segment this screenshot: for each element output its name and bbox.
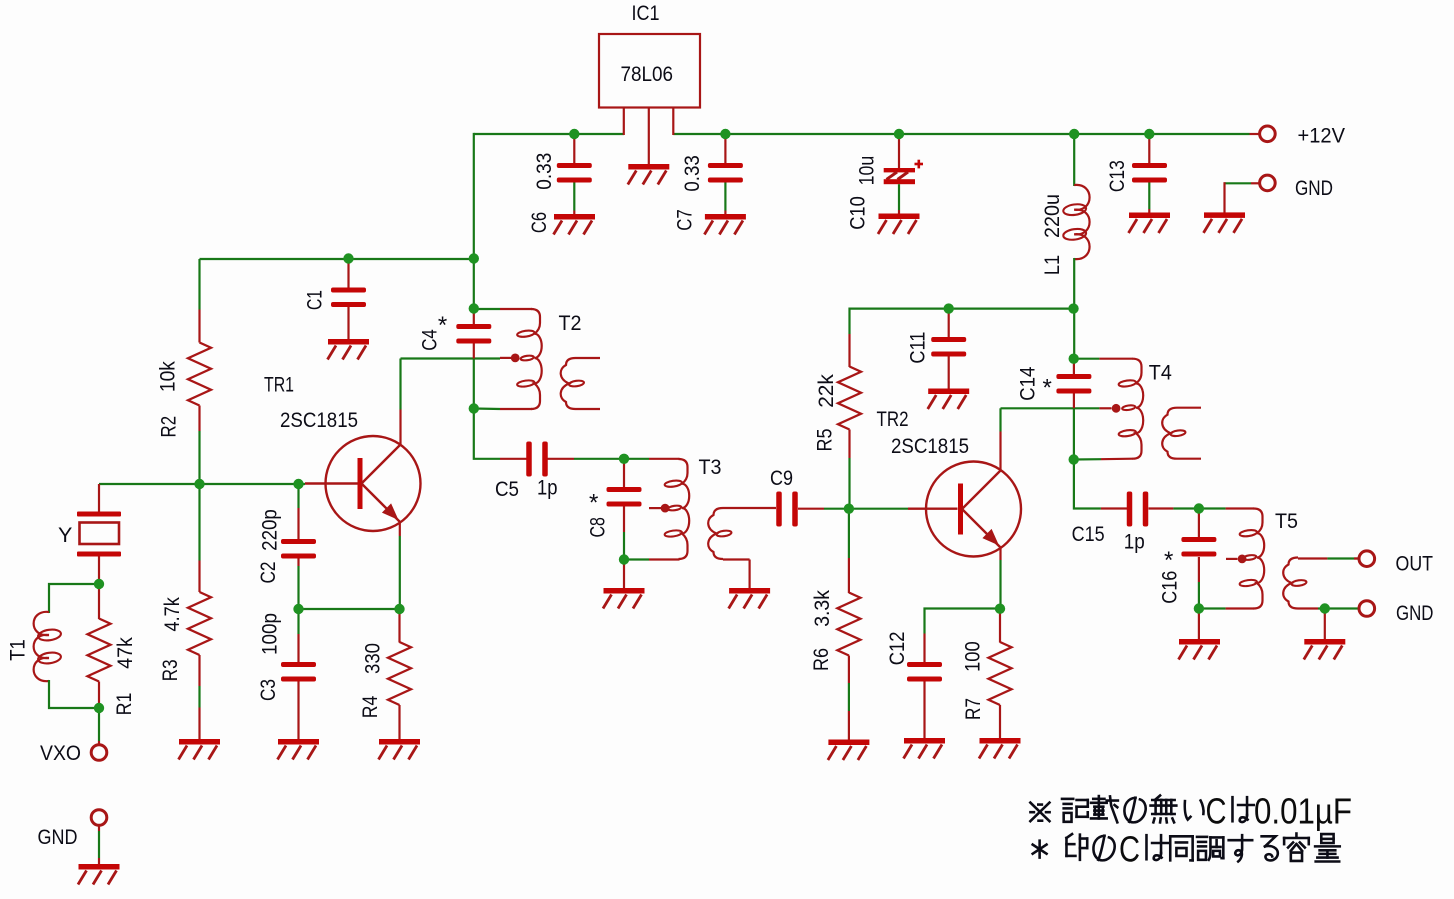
wire OUT stub: [1354, 557, 1360, 559]
capacitor C5 1p: [500, 442, 624, 477]
pin +12V pad: [1260, 126, 1276, 142]
capacitor C8: [607, 459, 642, 560]
svg-text:T1: T1: [6, 639, 30, 661]
label C8 star: [589, 490, 598, 517]
label OUT: [1396, 552, 1434, 576]
svg-text:VXO: VXO: [40, 741, 81, 765]
wire TR2 base: [849, 508, 958, 510]
op-amp IC1 78L06 regulator box: [599, 34, 700, 108]
transformer T5 primary: [1199, 509, 1264, 609]
wire T1 top: [49, 584, 99, 613]
node junction C2-C3: [293, 604, 303, 614]
label GND out: [1396, 601, 1434, 625]
node junction C4 top: [469, 303, 479, 313]
node junction C11-rail: [944, 303, 954, 313]
ground R3: [179, 739, 221, 760]
node junction R2-R3: [194, 479, 204, 489]
label R1: [112, 693, 136, 716]
wire +12V top rail left segment: [474, 133, 624, 135]
note text line1: [1030, 791, 1352, 832]
wire R5-C11 rail: [850, 309, 1074, 334]
pin IC1 input: [623, 108, 625, 136]
label +12V: [1298, 124, 1346, 148]
label R1 value 47k: [113, 637, 137, 669]
label R6: [809, 648, 833, 671]
ground C3: [278, 739, 320, 760]
node junction C5-T3-C8: [619, 454, 629, 464]
wire TR2 emitter: [999, 547, 1001, 610]
label C10: [845, 196, 869, 230]
wire C12 row: [925, 609, 1001, 634]
wire C14 to T4 bottom node: [1073, 408, 1075, 459]
svg-text:*: *: [1164, 547, 1173, 574]
svg-text:OUT: OUT: [1396, 552, 1434, 576]
label C10 value 10u: [855, 156, 879, 186]
svg-text:C3: C3: [256, 679, 280, 701]
transistor TR2 2SC1815: [926, 462, 1021, 557]
svg-text:C: C: [1206, 791, 1227, 832]
ground T5 secondary: [1304, 639, 1346, 660]
label GND right: [1295, 176, 1333, 200]
wire C4 to T2 bottom node: [473, 359, 475, 410]
wire TR1 emitter: [399, 521, 401, 609]
label C9: [770, 466, 793, 490]
svg-text:C1: C1: [302, 290, 326, 310]
resistor R3 4.7k: [188, 484, 211, 740]
transformer T2 secondary: [561, 358, 600, 409]
transformer T2 primary: [474, 309, 542, 409]
svg-text:L1: L1: [1040, 255, 1064, 275]
svg-text:R3: R3: [158, 659, 182, 681]
label R3 value 4.7k: [160, 597, 184, 632]
svg-text:C15: C15: [1072, 522, 1105, 546]
label T5: [1275, 509, 1298, 533]
svg-text:10k: 10k: [155, 361, 179, 392]
wire C16 ground lead: [1198, 609, 1200, 641]
svg-text:Y: Y: [58, 523, 72, 547]
label VXO: [40, 741, 81, 765]
label C13: [1105, 160, 1129, 192]
label TR2: [877, 407, 909, 431]
resistor R7 100: [989, 609, 1012, 739]
svg-text:C5: C5: [495, 477, 519, 501]
node junction T5-GND: [1320, 603, 1330, 613]
pin GND out pad: [1359, 601, 1375, 617]
svg-text:1p: 1p: [537, 476, 558, 500]
ground C1: [328, 339, 370, 360]
node junction rail-C6: [569, 129, 579, 139]
node junction vertical-rail: [469, 253, 479, 263]
label C5: [495, 477, 519, 501]
svg-text:0.01µF: 0.01µF: [1254, 791, 1352, 832]
label C2 value 220p: [258, 509, 282, 551]
node junction T2 bottom: [469, 403, 479, 413]
label R4: [358, 696, 382, 719]
label C12: [885, 632, 909, 666]
resistor R2 10k: [188, 259, 211, 484]
svg-text:R2: R2: [156, 416, 180, 438]
label C4 star: [438, 312, 447, 339]
capacitor C9: [776, 492, 849, 527]
ground C16: [1179, 639, 1221, 660]
node junction C14-T4 top: [1069, 354, 1079, 364]
node junction rail-L1: [1069, 129, 1079, 139]
label C15 value 1p: [1124, 530, 1145, 554]
ground GND left: [78, 864, 120, 885]
wire VXO: [98, 708, 100, 746]
wire TR2 collector: [1001, 408, 1100, 471]
label T3: [699, 455, 722, 479]
label R6 value 3.3k: [810, 590, 834, 627]
transformer T3 primary: [624, 459, 689, 560]
svg-text:C: C: [1119, 829, 1140, 870]
label C16 star: [1164, 547, 1173, 574]
wire T1 bottom: [49, 680, 99, 708]
transformer T4 secondary: [1162, 408, 1201, 459]
svg-text:R6: R6: [809, 648, 833, 671]
label C1: [302, 290, 326, 310]
label R7 value 100: [961, 641, 985, 672]
note text line2: [1033, 829, 1340, 870]
label C14: [1016, 367, 1040, 401]
label C8: [586, 517, 610, 537]
svg-text:C6: C6: [527, 212, 551, 233]
pin IC1 gnd: [648, 108, 650, 166]
svg-text:GND: GND: [38, 825, 78, 849]
node junction rail-C7: [720, 129, 730, 139]
ground T3 secondary: [729, 588, 771, 609]
node junction C1-rail: [343, 253, 353, 263]
inductor L1 220u: [1063, 185, 1090, 259]
wire T4 to C15: [1074, 460, 1101, 509]
wire bias rail y259: [200, 258, 474, 260]
wire base row TR1: [99, 483, 305, 485]
wire left vertical from rail to C4 node: [473, 133, 475, 309]
label C16: [1157, 571, 1181, 604]
label R2 value 10k: [155, 361, 179, 392]
svg-text:330: 330: [360, 643, 384, 674]
svg-text:C10: C10: [845, 196, 869, 230]
node junction T4 bottom: [1069, 454, 1079, 464]
capacitor C2 220p: [281, 484, 316, 609]
label R4 value 330: [360, 643, 384, 674]
label TR2 type 2SC1815: [891, 434, 969, 458]
label C7: [672, 209, 696, 231]
svg-text:4.7k: 4.7k: [160, 597, 184, 632]
wire L1 bottom: [1073, 258, 1075, 309]
ground C10: [878, 214, 920, 235]
svg-text:T2: T2: [559, 311, 582, 335]
svg-text:100p: 100p: [258, 613, 282, 655]
ground R7: [979, 738, 1021, 759]
label IC1: [632, 1, 660, 25]
label T2: [559, 311, 582, 335]
capacitor C10 polarized: [884, 134, 923, 214]
ground R4: [379, 739, 421, 760]
node junction Y-R1-T1: [94, 579, 104, 589]
label R2: [156, 416, 180, 438]
svg-text:C16: C16: [1157, 571, 1181, 604]
wire GND pad right: [1225, 182, 1261, 213]
svg-text:*: *: [438, 312, 447, 339]
label C3: [256, 679, 280, 701]
ground C12: [904, 738, 946, 759]
label C15: [1072, 522, 1105, 546]
node junction C9-R5-R6-base: [844, 504, 854, 514]
capacitor C6: [557, 134, 592, 215]
ground C11: [928, 389, 970, 410]
label C3 value 100p: [258, 613, 282, 655]
node junction base-C2: [293, 479, 303, 489]
svg-text:R1: R1: [112, 693, 136, 716]
transformer T5 secondary: [1283, 558, 1359, 609]
label C2: [256, 562, 280, 584]
label T1: [6, 639, 30, 661]
capacitor C12: [907, 634, 942, 740]
svg-text:+12V: +12V: [1298, 124, 1346, 148]
pin GND pad right: [1260, 175, 1276, 191]
resistor R5 22k: [838, 334, 861, 509]
label TR1 type 2SC1815: [280, 408, 358, 432]
svg-text:T3: T3: [699, 455, 722, 479]
label L1 value 220u: [1040, 194, 1064, 238]
label C6: [527, 212, 551, 233]
svg-text:C14: C14: [1016, 367, 1040, 401]
capacitor C16: [1181, 509, 1216, 609]
capacitor C3 100p: [281, 609, 316, 740]
wire T2 to C5: [474, 409, 500, 459]
label R5 value 22k: [814, 374, 838, 408]
svg-text:3.3k: 3.3k: [810, 590, 834, 627]
pin GND pad left: [91, 810, 107, 826]
label TR1: [264, 373, 294, 397]
inductor T1: [34, 612, 62, 681]
capacitor C13: [1132, 134, 1167, 213]
label C5 value 1p: [537, 476, 558, 500]
node junction C15-C16-T5 top: [1194, 503, 1204, 513]
svg-text:22k: 22k: [814, 374, 838, 408]
transformer T3 secondary: [708, 508, 776, 589]
wire GND left: [98, 825, 100, 865]
svg-text:R7: R7: [961, 698, 985, 720]
ground C7: [704, 214, 746, 235]
svg-text:0.33: 0.33: [532, 153, 556, 190]
svg-text:220p: 220p: [258, 509, 282, 551]
label R7: [961, 698, 985, 720]
label R5: [812, 428, 836, 451]
node junction rail-C10: [894, 129, 904, 139]
crystal Y: [77, 484, 121, 585]
node junction L1-rail: [1068, 303, 1078, 313]
capacitor C15 1p: [1101, 492, 1199, 527]
svg-text:C9: C9: [770, 466, 793, 490]
capacitor C7: [708, 134, 743, 215]
wire L1 top: [1073, 134, 1075, 186]
wire C8 ground lead: [623, 560, 625, 590]
label T4: [1149, 361, 1172, 385]
svg-text:T5: T5: [1275, 509, 1298, 533]
svg-text:0.33: 0.33: [680, 155, 704, 191]
pin OUT pad: [1359, 551, 1375, 567]
svg-text:C11: C11: [905, 332, 929, 364]
svg-text:1p: 1p: [1124, 530, 1145, 554]
wire +12V top rail right segment: [673, 133, 1249, 135]
label L1: [1040, 255, 1064, 275]
svg-text:C2: C2: [256, 562, 280, 584]
svg-text:R4: R4: [358, 696, 382, 719]
wire +12V stub: [1250, 133, 1261, 135]
capacitor C4: [456, 309, 491, 359]
node junction rail-C13: [1144, 129, 1154, 139]
svg-text:C12: C12: [885, 632, 909, 666]
svg-text:C13: C13: [1105, 160, 1129, 192]
label GND left: [38, 825, 78, 849]
capacitor C11: [931, 309, 966, 390]
label R3: [158, 659, 182, 681]
wire L1 to C14: [1073, 309, 1075, 359]
svg-text:C8: C8: [586, 517, 610, 537]
label Y: [58, 523, 72, 547]
svg-text:78L06: 78L06: [621, 62, 674, 86]
wire GND out lead: [1324, 609, 1326, 641]
svg-text:GND: GND: [1396, 601, 1434, 625]
svg-text:2SC1815: 2SC1815: [891, 434, 969, 458]
ground IC1: [628, 164, 670, 185]
resistor R6 3.3k: [837, 509, 860, 741]
transformer T4 primary: [1074, 359, 1144, 460]
svg-text:C7: C7: [672, 209, 696, 231]
label C14 star: [1043, 375, 1052, 402]
svg-text:2SC1815: 2SC1815: [280, 408, 358, 432]
capacitor C14: [1056, 359, 1091, 409]
label C4: [418, 329, 442, 351]
label C11: [905, 332, 929, 364]
svg-text:220u: 220u: [1040, 194, 1064, 238]
wire emitter row TR1: [299, 608, 400, 610]
svg-text:GND: GND: [1295, 176, 1333, 200]
svg-text:R5: R5: [812, 428, 836, 451]
node junction R1-T1-VXO: [94, 703, 104, 713]
svg-text:47k: 47k: [113, 637, 137, 669]
svg-text:10u: 10u: [855, 156, 879, 186]
pin VXO pad: [91, 745, 107, 761]
wire TR1 collector: [401, 359, 501, 445]
ground C13: [1129, 213, 1171, 234]
svg-text:IC1: IC1: [632, 1, 660, 25]
svg-text:TR2: TR2: [877, 407, 909, 431]
ground C6: [554, 214, 596, 235]
resistor R4 330: [388, 609, 411, 740]
label C6 value 0.33: [532, 153, 556, 190]
node junction emitter-R4: [394, 604, 404, 614]
svg-text:T4: T4: [1149, 361, 1172, 385]
pin IC1 output: [672, 108, 674, 136]
svg-text:*: *: [589, 490, 598, 517]
transistor TR1 2SC1815: [305, 436, 421, 531]
ground R6: [828, 740, 870, 761]
label C7 value 0.33: [680, 155, 704, 191]
node junction C16-T5 bottom: [1194, 603, 1204, 613]
svg-text:TR1: TR1: [264, 373, 294, 397]
node junction C8-T3 bottom: [619, 554, 629, 564]
ground GND right: [1204, 212, 1246, 233]
resistor R1 47k: [88, 584, 111, 708]
capacitor C1: [331, 259, 366, 341]
node junction emitter-R7-C12: [995, 604, 1005, 614]
svg-text:*: *: [1043, 375, 1052, 402]
ground C8: [603, 588, 645, 609]
svg-text:100: 100: [961, 641, 985, 672]
